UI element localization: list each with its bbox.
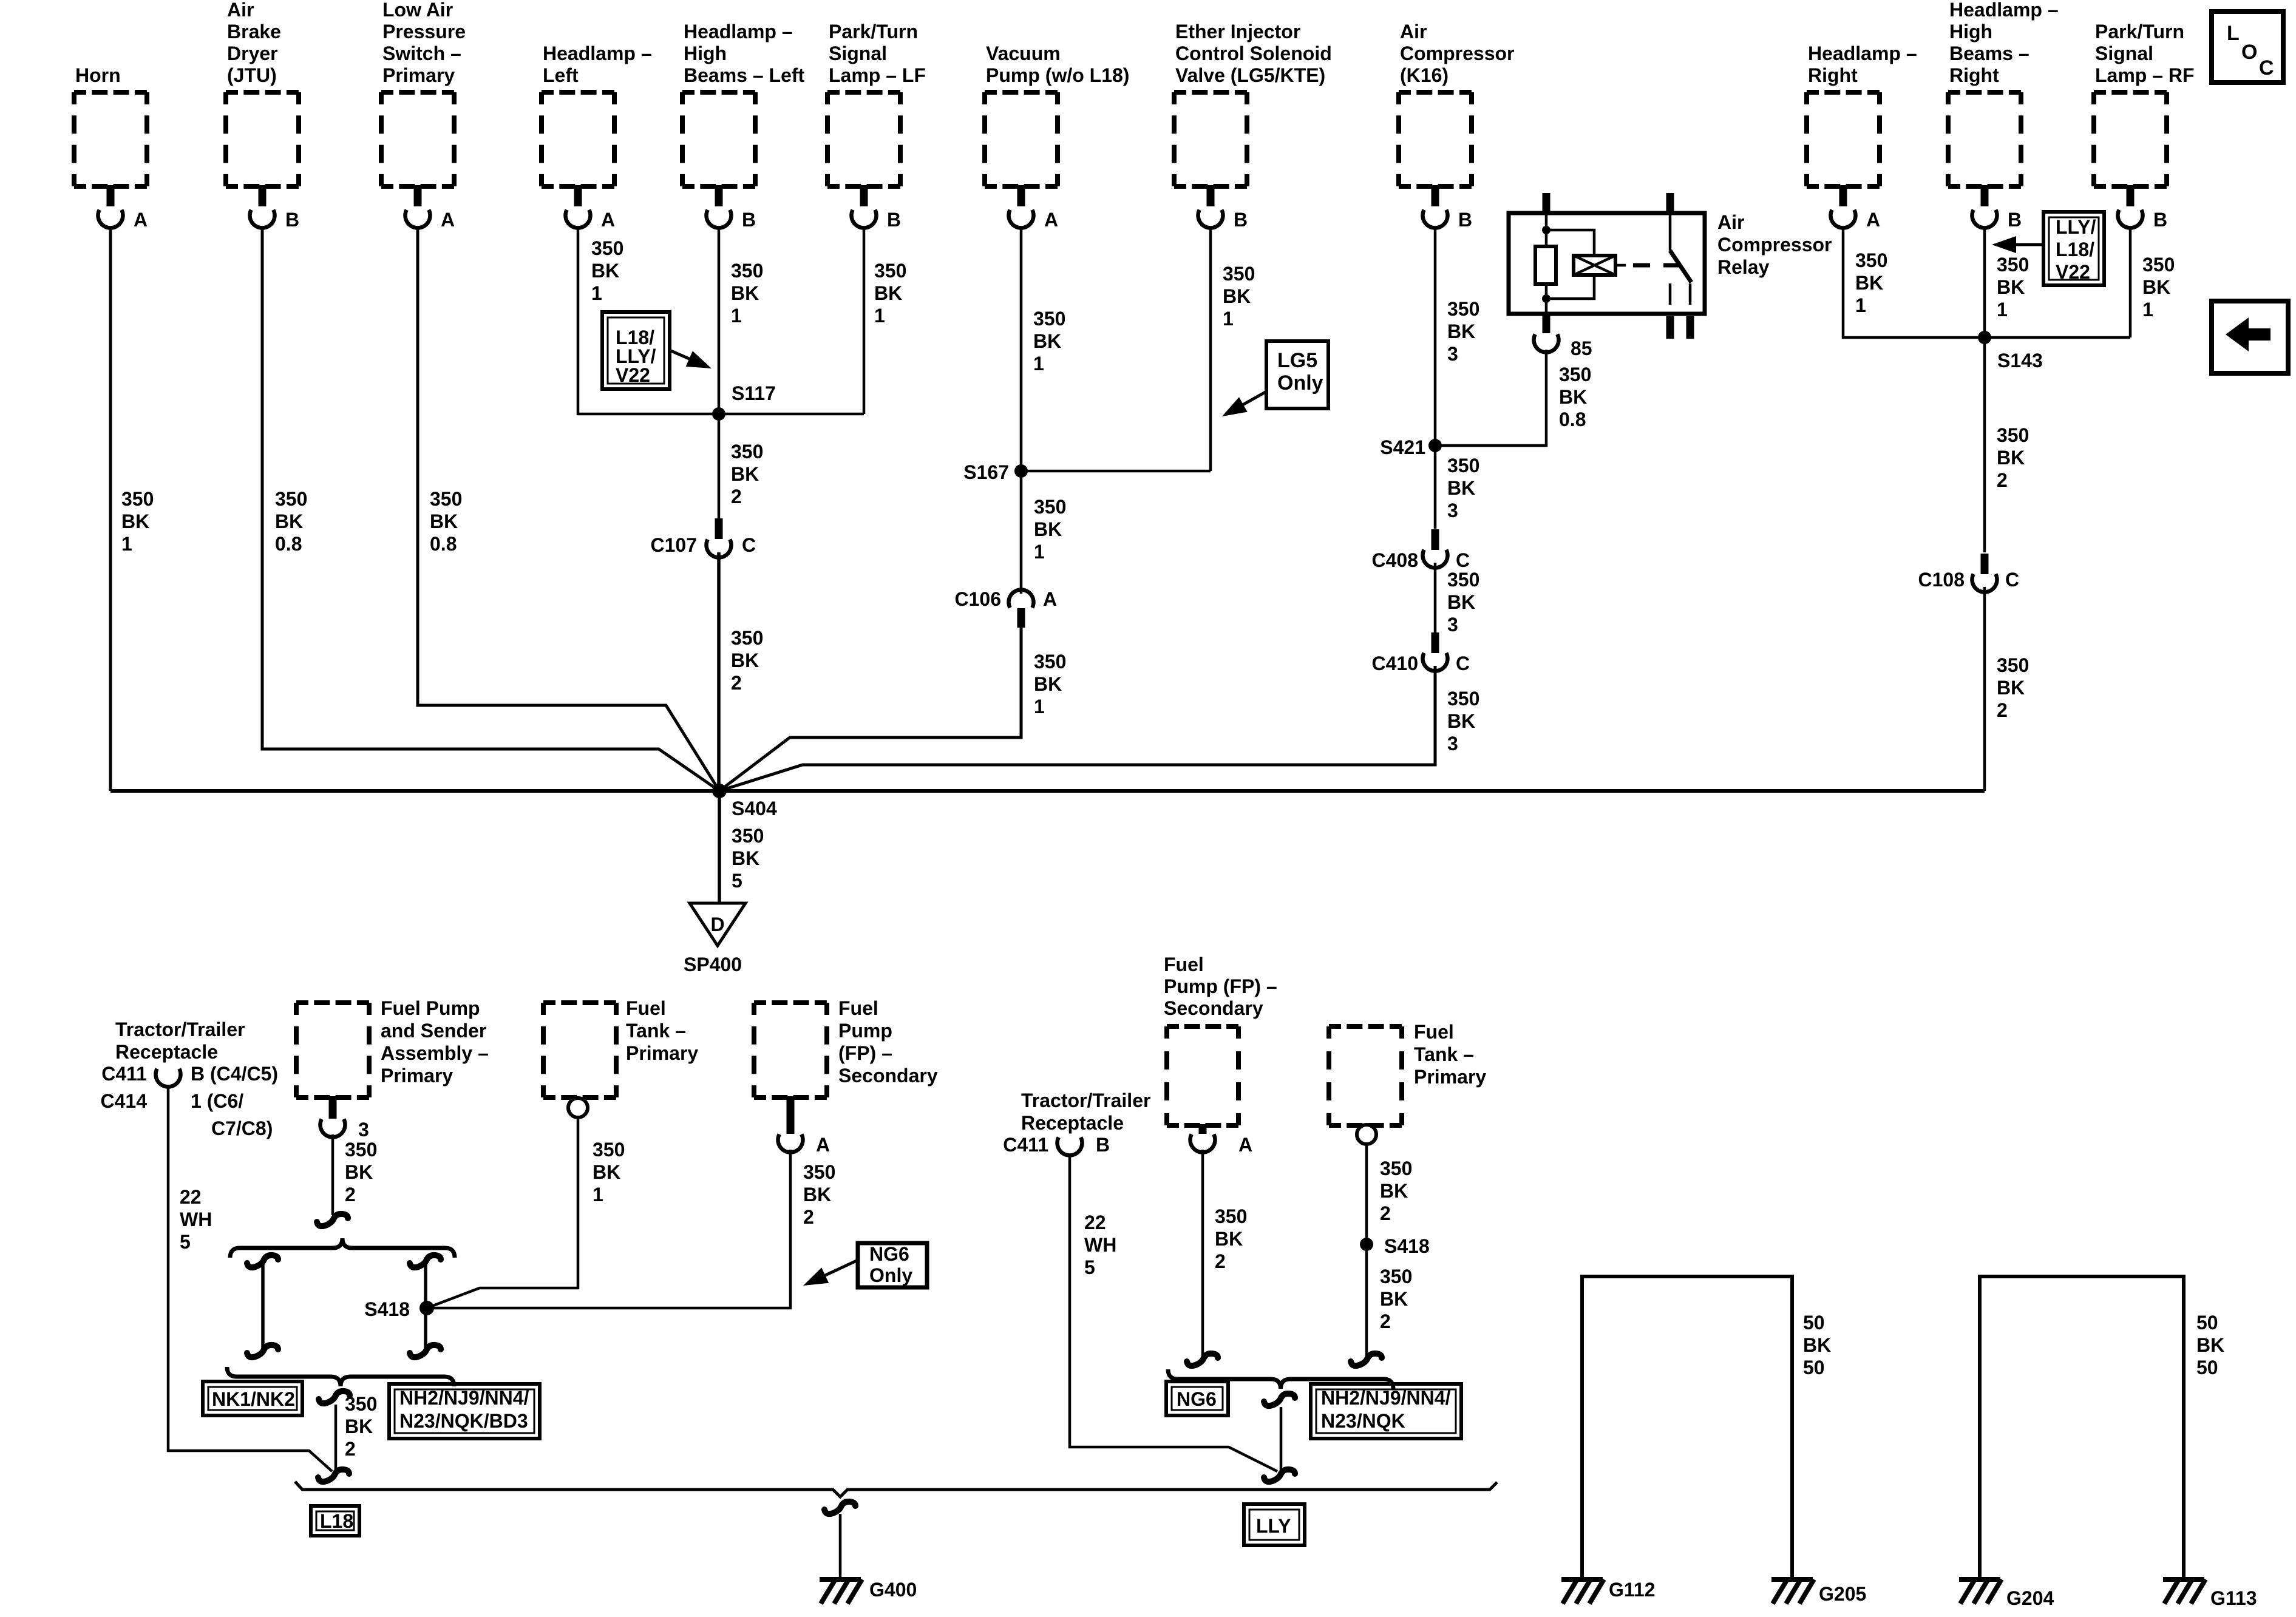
- svg-text:350: 350: [731, 627, 763, 649]
- svg-text:350: 350: [1034, 496, 1066, 518]
- svg-text:Primary: Primary: [1414, 1066, 1486, 1088]
- svg-text:BK: BK: [731, 649, 759, 671]
- svg-text:N23/NQK: N23/NQK: [1321, 1410, 1405, 1432]
- svg-text:G113: G113: [2210, 1587, 2257, 1609]
- svg-text:Headlamp –: Headlamp –: [1808, 42, 1917, 64]
- svg-text:O: O: [2241, 41, 2257, 64]
- svg-text:1: 1: [731, 305, 742, 327]
- svg-text:Fuel: Fuel: [1414, 1021, 1454, 1043]
- svg-text:Park/Turn: Park/Turn: [2095, 21, 2184, 42]
- svg-text:1 (C6/: 1 (C6/: [191, 1090, 243, 1112]
- svg-text:C: C: [742, 534, 756, 556]
- svg-text:A: A: [1044, 209, 1058, 231]
- svg-text:Lamp – RF: Lamp – RF: [2095, 64, 2195, 86]
- svg-text:1: 1: [2142, 299, 2153, 320]
- svg-text:N23/NQK/BD3: N23/NQK/BD3: [399, 1410, 528, 1432]
- svg-text:1: 1: [1223, 308, 1234, 330]
- svg-text:B: B: [1234, 209, 1248, 231]
- svg-text:Fuel: Fuel: [1164, 954, 1204, 975]
- svg-text:S418: S418: [364, 1298, 410, 1320]
- svg-text:BK: BK: [732, 847, 759, 869]
- svg-text:A: A: [601, 209, 615, 231]
- svg-text:2: 2: [731, 672, 742, 694]
- svg-text:BK: BK: [1997, 276, 2025, 298]
- svg-text:BK: BK: [345, 1161, 373, 1183]
- svg-text:Right: Right: [1808, 64, 1858, 86]
- svg-text:BK: BK: [275, 510, 303, 532]
- svg-text:Air: Air: [1717, 211, 1744, 233]
- svg-text:LLY: LLY: [1256, 1515, 1291, 1537]
- svg-text:350: 350: [732, 825, 764, 847]
- svg-text:Receptacle: Receptacle: [115, 1041, 218, 1063]
- svg-text:BK: BK: [1215, 1228, 1243, 1250]
- svg-text:350: 350: [591, 237, 623, 259]
- svg-text:350: 350: [1380, 1158, 1412, 1179]
- svg-text:C108: C108: [1918, 569, 1965, 591]
- svg-text:BK: BK: [1447, 320, 1475, 342]
- svg-text:350: 350: [1447, 298, 1479, 320]
- svg-text:Fuel Pump: Fuel Pump: [381, 997, 480, 1019]
- svg-text:BK: BK: [430, 510, 458, 532]
- svg-text:350: 350: [1997, 424, 2029, 446]
- svg-text:S418: S418: [1384, 1235, 1430, 1257]
- svg-text:2: 2: [1215, 1250, 1226, 1272]
- svg-text:Fuel: Fuel: [838, 997, 878, 1019]
- svg-text:350: 350: [731, 441, 763, 463]
- svg-text:BK: BK: [1997, 447, 2025, 469]
- svg-text:Primary: Primary: [382, 64, 455, 86]
- svg-text:Signal: Signal: [829, 42, 887, 64]
- svg-text:B: B: [2153, 209, 2167, 231]
- svg-text:BK: BK: [591, 260, 619, 282]
- svg-text:1: 1: [593, 1184, 603, 1205]
- svg-text:B: B: [887, 209, 901, 231]
- svg-text:Dryer: Dryer: [227, 42, 278, 64]
- svg-text:85: 85: [1571, 337, 1592, 359]
- svg-text:BK: BK: [1034, 673, 1062, 695]
- svg-text:BK: BK: [731, 463, 759, 485]
- svg-text:S143: S143: [1997, 350, 2043, 371]
- svg-text:Ether Injector: Ether Injector: [1175, 21, 1300, 42]
- svg-text:BK: BK: [1033, 330, 1061, 352]
- svg-text:Tank –: Tank –: [1414, 1043, 1474, 1065]
- svg-text:2: 2: [345, 1438, 356, 1460]
- svg-text:C: C: [2005, 569, 2019, 591]
- svg-text:2: 2: [1380, 1202, 1391, 1224]
- svg-text:2: 2: [803, 1206, 814, 1228]
- svg-text:3: 3: [1447, 733, 1458, 754]
- svg-text:Vacuum: Vacuum: [986, 42, 1061, 64]
- svg-text:Air: Air: [227, 0, 254, 21]
- svg-text:350: 350: [1447, 569, 1479, 591]
- svg-text:BK: BK: [1559, 386, 1587, 408]
- svg-text:Park/Turn: Park/Turn: [829, 21, 918, 42]
- svg-text:Secondary: Secondary: [838, 1065, 938, 1086]
- svg-text:350: 350: [1855, 249, 1887, 271]
- svg-text:350: 350: [345, 1139, 377, 1161]
- svg-text:Left: Left: [543, 64, 579, 86]
- svg-text:22: 22: [180, 1186, 202, 1208]
- svg-text:Low Air: Low Air: [382, 0, 453, 21]
- svg-text:NK1/NK2: NK1/NK2: [212, 1388, 295, 1410]
- svg-text:C411: C411: [101, 1063, 147, 1085]
- svg-text:BK: BK: [1447, 477, 1475, 499]
- svg-text:B (C4/C5): B (C4/C5): [191, 1063, 278, 1085]
- svg-text:350: 350: [1997, 654, 2029, 676]
- svg-text:Compressor: Compressor: [1717, 234, 1832, 256]
- svg-text:S167: S167: [963, 461, 1009, 483]
- svg-text:Only: Only: [869, 1264, 912, 1286]
- svg-text:C107: C107: [651, 534, 698, 556]
- svg-text:High: High: [1949, 21, 1992, 42]
- svg-text:Control Solenoid: Control Solenoid: [1175, 42, 1332, 64]
- svg-text:Primary: Primary: [626, 1042, 698, 1064]
- svg-text:2: 2: [345, 1184, 356, 1205]
- svg-text:2: 2: [1997, 699, 2008, 721]
- svg-text:Air: Air: [1400, 21, 1427, 42]
- svg-text:BK: BK: [345, 1415, 373, 1437]
- svg-text:350: 350: [1447, 455, 1479, 476]
- svg-text:A: A: [1238, 1134, 1252, 1156]
- svg-text:(K16): (K16): [1400, 64, 1449, 86]
- svg-text:BK: BK: [121, 510, 149, 532]
- svg-text:G205: G205: [1819, 1583, 1866, 1605]
- svg-text:350: 350: [803, 1161, 835, 1183]
- svg-text:Switch –: Switch –: [382, 42, 461, 64]
- svg-text:Assembly –: Assembly –: [381, 1042, 489, 1064]
- svg-text:3: 3: [1447, 500, 1458, 521]
- svg-text:B: B: [1458, 209, 1472, 231]
- svg-text:L18: L18: [320, 1510, 353, 1532]
- svg-text:BK: BK: [731, 282, 759, 304]
- svg-text:50: 50: [1803, 1357, 1825, 1378]
- svg-text:350: 350: [430, 488, 462, 510]
- svg-text:(FP) –: (FP) –: [838, 1042, 892, 1064]
- svg-text:1: 1: [121, 533, 132, 555]
- svg-text:BK: BK: [1803, 1334, 1831, 1356]
- svg-text:5: 5: [180, 1231, 191, 1253]
- svg-text:BK: BK: [1034, 518, 1062, 540]
- svg-text:BK: BK: [1223, 285, 1251, 307]
- svg-text:350: 350: [593, 1139, 625, 1161]
- svg-text:2: 2: [1380, 1310, 1391, 1332]
- svg-text:Brake: Brake: [227, 21, 281, 42]
- svg-text:350: 350: [731, 260, 763, 282]
- svg-text:50: 50: [2196, 1312, 2218, 1334]
- svg-text:LG5: LG5: [1277, 349, 1317, 372]
- svg-text:Pump: Pump: [838, 1020, 892, 1042]
- svg-text:350: 350: [121, 488, 154, 510]
- svg-text:A: A: [816, 1134, 830, 1156]
- svg-text:NG6: NG6: [869, 1243, 909, 1265]
- svg-text:C410: C410: [1372, 653, 1419, 674]
- svg-text:C: C: [1456, 549, 1470, 571]
- svg-text:NH2/NJ9/NN4/: NH2/NJ9/NN4/: [1321, 1387, 1451, 1409]
- svg-text:Compressor: Compressor: [1400, 42, 1515, 64]
- svg-text:1: 1: [1033, 353, 1044, 375]
- svg-text:BK: BK: [2196, 1334, 2224, 1356]
- svg-text:A: A: [1866, 209, 1880, 231]
- svg-text:Headlamp –: Headlamp –: [1949, 0, 2059, 21]
- svg-text:Lamp – LF: Lamp – LF: [829, 64, 926, 86]
- svg-text:350: 350: [1215, 1205, 1247, 1227]
- svg-text:1: 1: [1997, 299, 2008, 320]
- svg-text:50: 50: [1803, 1312, 1825, 1334]
- svg-text:S421: S421: [1380, 436, 1425, 458]
- svg-text:B: B: [1096, 1134, 1110, 1156]
- svg-text:BK: BK: [1855, 272, 1883, 294]
- svg-text:350: 350: [874, 260, 906, 282]
- svg-text:350: 350: [1034, 651, 1066, 673]
- svg-text:350: 350: [1033, 308, 1065, 330]
- svg-text:C408: C408: [1372, 549, 1419, 571]
- svg-text:1: 1: [1034, 541, 1045, 563]
- svg-text:C7/C8): C7/C8): [211, 1117, 273, 1139]
- svg-text:Pressure: Pressure: [382, 21, 466, 42]
- svg-text:2: 2: [1997, 469, 2008, 491]
- svg-text:1: 1: [1034, 696, 1045, 717]
- svg-text:Only: Only: [1277, 371, 1323, 395]
- svg-text:Fuel: Fuel: [626, 997, 666, 1019]
- svg-text:G400: G400: [869, 1579, 917, 1601]
- svg-text:Receptacle: Receptacle: [1021, 1112, 1124, 1134]
- svg-text:0.8: 0.8: [1559, 408, 1586, 430]
- svg-text:D: D: [710, 914, 724, 935]
- svg-text:Valve (LG5/KTE): Valve (LG5/KTE): [1175, 64, 1325, 86]
- svg-text:S404: S404: [732, 798, 777, 819]
- svg-text:and Sender: and Sender: [381, 1020, 486, 1042]
- svg-text:Tractor/Trailer: Tractor/Trailer: [1021, 1090, 1150, 1111]
- svg-text:3: 3: [1447, 343, 1458, 365]
- svg-text:L18/: L18/: [2056, 239, 2094, 260]
- svg-text:B: B: [742, 209, 756, 231]
- svg-text:V22: V22: [2056, 261, 2090, 283]
- svg-text:0.8: 0.8: [275, 533, 302, 555]
- svg-text:BK: BK: [1380, 1288, 1408, 1310]
- svg-text:Headlamp –: Headlamp –: [543, 42, 652, 64]
- svg-text:BK: BK: [803, 1184, 831, 1205]
- svg-text:G112: G112: [1609, 1579, 1656, 1601]
- svg-text:5: 5: [1084, 1256, 1095, 1278]
- svg-text:WH: WH: [1084, 1234, 1116, 1256]
- svg-text:Pump (w/o L18): Pump (w/o L18): [986, 64, 1129, 86]
- svg-text:0.8: 0.8: [430, 533, 457, 555]
- svg-text:C106: C106: [955, 588, 1002, 610]
- svg-text:3: 3: [1447, 614, 1458, 636]
- svg-text:C: C: [1456, 653, 1470, 674]
- svg-text:BK: BK: [1447, 710, 1475, 732]
- svg-text:Right: Right: [1949, 64, 1999, 86]
- svg-text:350: 350: [1223, 263, 1255, 285]
- svg-text:BK: BK: [874, 282, 902, 304]
- svg-text:Tractor/Trailer: Tractor/Trailer: [115, 1019, 245, 1040]
- svg-text:S117: S117: [732, 382, 776, 404]
- svg-text:Beams –: Beams –: [1949, 42, 2029, 64]
- svg-text:V22: V22: [616, 364, 650, 386]
- svg-text:350: 350: [1380, 1266, 1412, 1287]
- svg-text:Pump (FP) –: Pump (FP) –: [1164, 975, 1277, 997]
- svg-text:350: 350: [2142, 254, 2175, 276]
- svg-text:22: 22: [1084, 1212, 1106, 1233]
- svg-text:50: 50: [2196, 1357, 2218, 1378]
- svg-text:Relay: Relay: [1717, 256, 1770, 278]
- svg-text:SP400: SP400: [684, 954, 742, 975]
- svg-text:BK: BK: [2142, 276, 2170, 298]
- svg-text:350: 350: [1447, 688, 1479, 710]
- svg-text:1: 1: [591, 282, 602, 304]
- svg-text:1: 1: [874, 305, 885, 327]
- svg-text:A: A: [134, 209, 148, 231]
- svg-text:BK: BK: [1447, 591, 1475, 613]
- svg-text:Primary: Primary: [381, 1065, 453, 1086]
- svg-text:350: 350: [1997, 254, 2029, 276]
- svg-text:WH: WH: [180, 1209, 212, 1230]
- svg-text:350: 350: [1559, 364, 1591, 385]
- svg-text:5: 5: [732, 870, 742, 892]
- svg-text:350: 350: [275, 488, 307, 510]
- svg-text:Headlamp –: Headlamp –: [684, 21, 793, 42]
- svg-text:B: B: [2008, 209, 2022, 231]
- svg-text:Horn: Horn: [75, 64, 121, 86]
- svg-text:BK: BK: [593, 1161, 620, 1183]
- svg-text:High: High: [684, 42, 727, 64]
- svg-text:Signal: Signal: [2095, 42, 2153, 64]
- svg-text:3: 3: [358, 1119, 369, 1141]
- svg-text:A: A: [441, 209, 455, 231]
- svg-text:C414: C414: [101, 1090, 148, 1112]
- svg-text:BK: BK: [1997, 677, 2025, 699]
- svg-text:350: 350: [345, 1393, 377, 1415]
- svg-text:Secondary: Secondary: [1164, 997, 1263, 1019]
- svg-text:C411: C411: [1003, 1134, 1048, 1156]
- svg-text:G204: G204: [2006, 1587, 2054, 1609]
- svg-text:A: A: [1043, 588, 1057, 610]
- svg-text:BK: BK: [1380, 1180, 1408, 1202]
- svg-text:(JTU): (JTU): [227, 64, 277, 86]
- svg-text:1: 1: [1855, 294, 1866, 316]
- svg-text:B: B: [285, 209, 299, 231]
- svg-text:NH2/NJ9/NN4/: NH2/NJ9/NN4/: [399, 1387, 529, 1409]
- svg-text:Tank –: Tank –: [626, 1020, 686, 1042]
- svg-text:LLY/: LLY/: [2056, 216, 2096, 238]
- svg-text:Beams – Left: Beams – Left: [684, 64, 805, 86]
- svg-text:C: C: [2259, 56, 2274, 80]
- svg-text:2: 2: [731, 486, 742, 507]
- svg-text:L: L: [2227, 22, 2240, 45]
- svg-text:NG6: NG6: [1177, 1388, 1217, 1410]
